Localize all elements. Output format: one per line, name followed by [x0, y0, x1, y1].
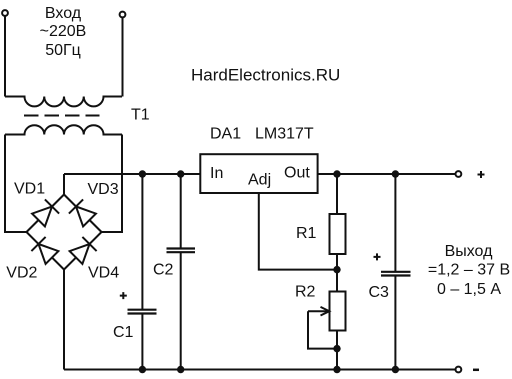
- wire: negative rail: [64, 369, 455, 371]
- svg-text:In: In: [210, 165, 223, 182]
- svg-text:~220В: ~220В: [40, 23, 87, 40]
- wire: Out rail down to R1: [336, 174, 338, 214]
- R2 wiper arrow: [308, 307, 329, 316]
- label: Выход: [445, 243, 494, 260]
- wire: regulator Out to output terminal: [318, 173, 456, 175]
- label: C3: [369, 284, 390, 301]
- op-amp DA1 regulator LM317T body: [200, 154, 317, 193]
- bridge diamond edge VD1 side: [27, 195, 65, 233]
- label: HardElectronics.RU: [191, 66, 340, 85]
- output terminal plus: [456, 171, 462, 177]
- svg-text:C1: C1: [113, 324, 134, 341]
- resistor R2 (potentiometer): [330, 292, 346, 331]
- bridge diamond edge VD4 side: [64, 232, 102, 270]
- svg-text:Out: Out: [284, 165, 310, 182]
- input terminal right: [120, 12, 126, 18]
- plus sign at output terminal: [478, 171, 485, 178]
- label: VD1: [14, 181, 45, 198]
- label: VD4: [88, 265, 119, 282]
- label: C1: [113, 324, 134, 341]
- wire: R1 to Adj node: [336, 254, 338, 270]
- wire: bridge top vertex up to positive rail: [63, 174, 65, 195]
- transformer T1 core (dashed): [24, 115, 100, 117]
- junction node R1 top: [333, 170, 340, 177]
- bridge diamond edge VD3 side: [64, 195, 102, 233]
- label: R1: [296, 225, 317, 242]
- wire: R2 bottom to negative rail: [336, 331, 338, 370]
- svg-text:50Гц: 50Гц: [45, 42, 81, 59]
- capacitor C3 plates: [381, 272, 411, 276]
- diode VD1: [32, 199, 59, 226]
- svg-text:DA1: DA1: [210, 126, 241, 143]
- capacitor C3 bottom lead: [394, 276, 396, 369]
- svg-text:R2: R2: [295, 284, 316, 301]
- capacitor C3 top lead: [394, 174, 396, 271]
- svg-text:VD3: VD3: [88, 181, 119, 198]
- junction node C2 top: [177, 170, 184, 177]
- input terminal left: [2, 10, 8, 16]
- label: input Вход: [45, 5, 82, 22]
- junction node C3 bottom: [392, 366, 399, 373]
- svg-text:VD1: VD1: [14, 181, 45, 198]
- junction node R2 bottom rail: [333, 366, 340, 373]
- svg-text:=1,2 – 37 В: =1,2 – 37 В: [428, 262, 510, 279]
- svg-text:R1: R1: [296, 225, 317, 242]
- label: R2: [295, 284, 316, 301]
- capacitor C1 bottom lead: [141, 314, 143, 369]
- transformer T1 secondary winding: [5, 125, 122, 134]
- junction node R2 wiper: [333, 345, 340, 352]
- bridge diamond edge VD2 side: [27, 232, 65, 270]
- label: ~220В: [40, 23, 87, 40]
- wire: right terminal to primary: [122, 18, 124, 97]
- wire: bridge bottom vertex to negative rail: [63, 270, 65, 370]
- svg-text:Adj: Adj: [248, 172, 271, 189]
- wire: positive rail to regulator In: [64, 173, 200, 175]
- junction node C2 bottom: [177, 366, 184, 373]
- label: VD2: [6, 265, 37, 282]
- wire: Adj node to R2: [336, 270, 338, 292]
- svg-text:LM317T: LM317T: [255, 126, 314, 143]
- label: C2: [153, 262, 174, 279]
- svg-text:VD4: VD4: [88, 265, 119, 282]
- wire: left terminal to primary: [4, 17, 6, 97]
- svg-text:T1: T1: [131, 107, 150, 124]
- junction node C3 top: [392, 170, 399, 177]
- wire: Adj pin down and right to R1/R2 node: [259, 193, 337, 270]
- wire: R2 wiper to bottom terminal of R2: [308, 311, 337, 348]
- diode VD2: [31, 237, 58, 264]
- pin label: Out: [284, 165, 310, 182]
- minus sign at bottom output terminal: [473, 369, 479, 372]
- plus sign at C1: [120, 292, 127, 299]
- label: DA1: [210, 126, 241, 143]
- capacitor C2 top lead: [180, 174, 182, 248]
- capacitor C1 plates: [128, 310, 157, 314]
- svg-text:C2: C2: [153, 262, 174, 279]
- label: 0 – 1,5 А: [437, 281, 501, 298]
- diode VD4: [70, 237, 97, 264]
- label: T1: [131, 107, 150, 124]
- svg-text:VD2: VD2: [6, 265, 37, 282]
- svg-text:Выход: Выход: [445, 243, 494, 260]
- svg-text:C3: C3: [369, 284, 390, 301]
- output terminal minus: [456, 367, 462, 373]
- junction node C1 top: [139, 170, 146, 177]
- wire: secondary right to bridge right vertex: [102, 135, 123, 233]
- label: VD3: [88, 181, 119, 198]
- junction node C1 bottom: [139, 366, 146, 373]
- resistor R1: [330, 214, 346, 254]
- capacitor C2 plates: [167, 249, 196, 253]
- pin label: Adj: [248, 172, 271, 189]
- capacitor C1 top lead: [141, 174, 143, 309]
- transformer T1 primary winding: [5, 97, 122, 107]
- pin label: In: [210, 165, 223, 182]
- label: LM317T: [255, 126, 314, 143]
- plus sign at C3: [374, 253, 381, 260]
- svg-text:HardElectronics.RU: HardElectronics.RU: [191, 66, 340, 85]
- svg-text:0 – 1,5 А: 0 – 1,5 А: [437, 281, 501, 298]
- diode VD3: [69, 199, 96, 226]
- label: 50Гц: [45, 42, 81, 59]
- wire: secondary left to bridge left vertex: [5, 135, 27, 233]
- junction node Adj/R1/R2: [333, 266, 340, 273]
- svg-text:Вход: Вход: [45, 5, 82, 22]
- capacitor C2 bottom lead: [180, 253, 182, 370]
- label: =1,2 – 37 В: [428, 262, 510, 279]
